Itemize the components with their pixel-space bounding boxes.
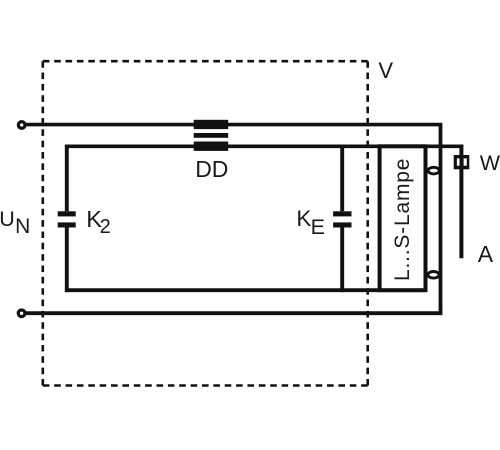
capacitor KE plates	[333, 211, 351, 227]
wire: KE branch upper lead	[340, 145, 344, 212]
svg-text:L...S-Lampe: L...S-Lampe	[391, 158, 414, 281]
wire: right vertical wire (lamp right-side feed)	[439, 125, 443, 314]
wire: inner bottom wire (lamp bottom return)	[65, 288, 426, 292]
svg-text:N: N	[15, 215, 30, 238]
wire: K2 branch upper lead	[65, 145, 69, 212]
svg-text:A: A	[478, 241, 494, 267]
terminal bottom (mains input)	[18, 310, 25, 317]
svg-text:U: U	[0, 207, 15, 231]
capacitor K2 plates	[58, 211, 76, 227]
svg-text:K: K	[296, 206, 311, 231]
wire: K2 branch lower lead	[65, 227, 69, 292]
wire: bottom mains wire from right vertical back to bottom terminal	[26, 311, 443, 315]
dashed enclosure V, right edge	[366, 61, 369, 385]
starter/switch W symbol	[454, 155, 470, 169]
terminal top (mains input)	[18, 122, 25, 129]
wire: starter branch vertical	[459, 145, 463, 259]
wire: top mains wire from terminal to right side	[26, 123, 443, 127]
svg-text:DD: DD	[195, 156, 228, 182]
lamp electrode bottom	[428, 272, 439, 279]
lamp L...S-Lampe body	[380, 146, 426, 290]
dashed enclosure V, left edge	[41, 61, 44, 385]
choke DD core bars	[194, 120, 229, 151]
svg-text:W: W	[480, 151, 500, 175]
wire: inner top wire (DD lower winding to starter branch)	[65, 145, 463, 149]
svg-text:2: 2	[100, 216, 111, 238]
dashed enclosure V (ballast box), top edge	[43, 60, 368, 63]
wire: KE branch lower lead	[340, 227, 344, 292]
dashed enclosure V, bottom edge	[43, 384, 368, 387]
svg-text:V: V	[378, 58, 393, 83]
svg-text:E: E	[311, 215, 325, 239]
lamp electrode top	[428, 167, 439, 174]
